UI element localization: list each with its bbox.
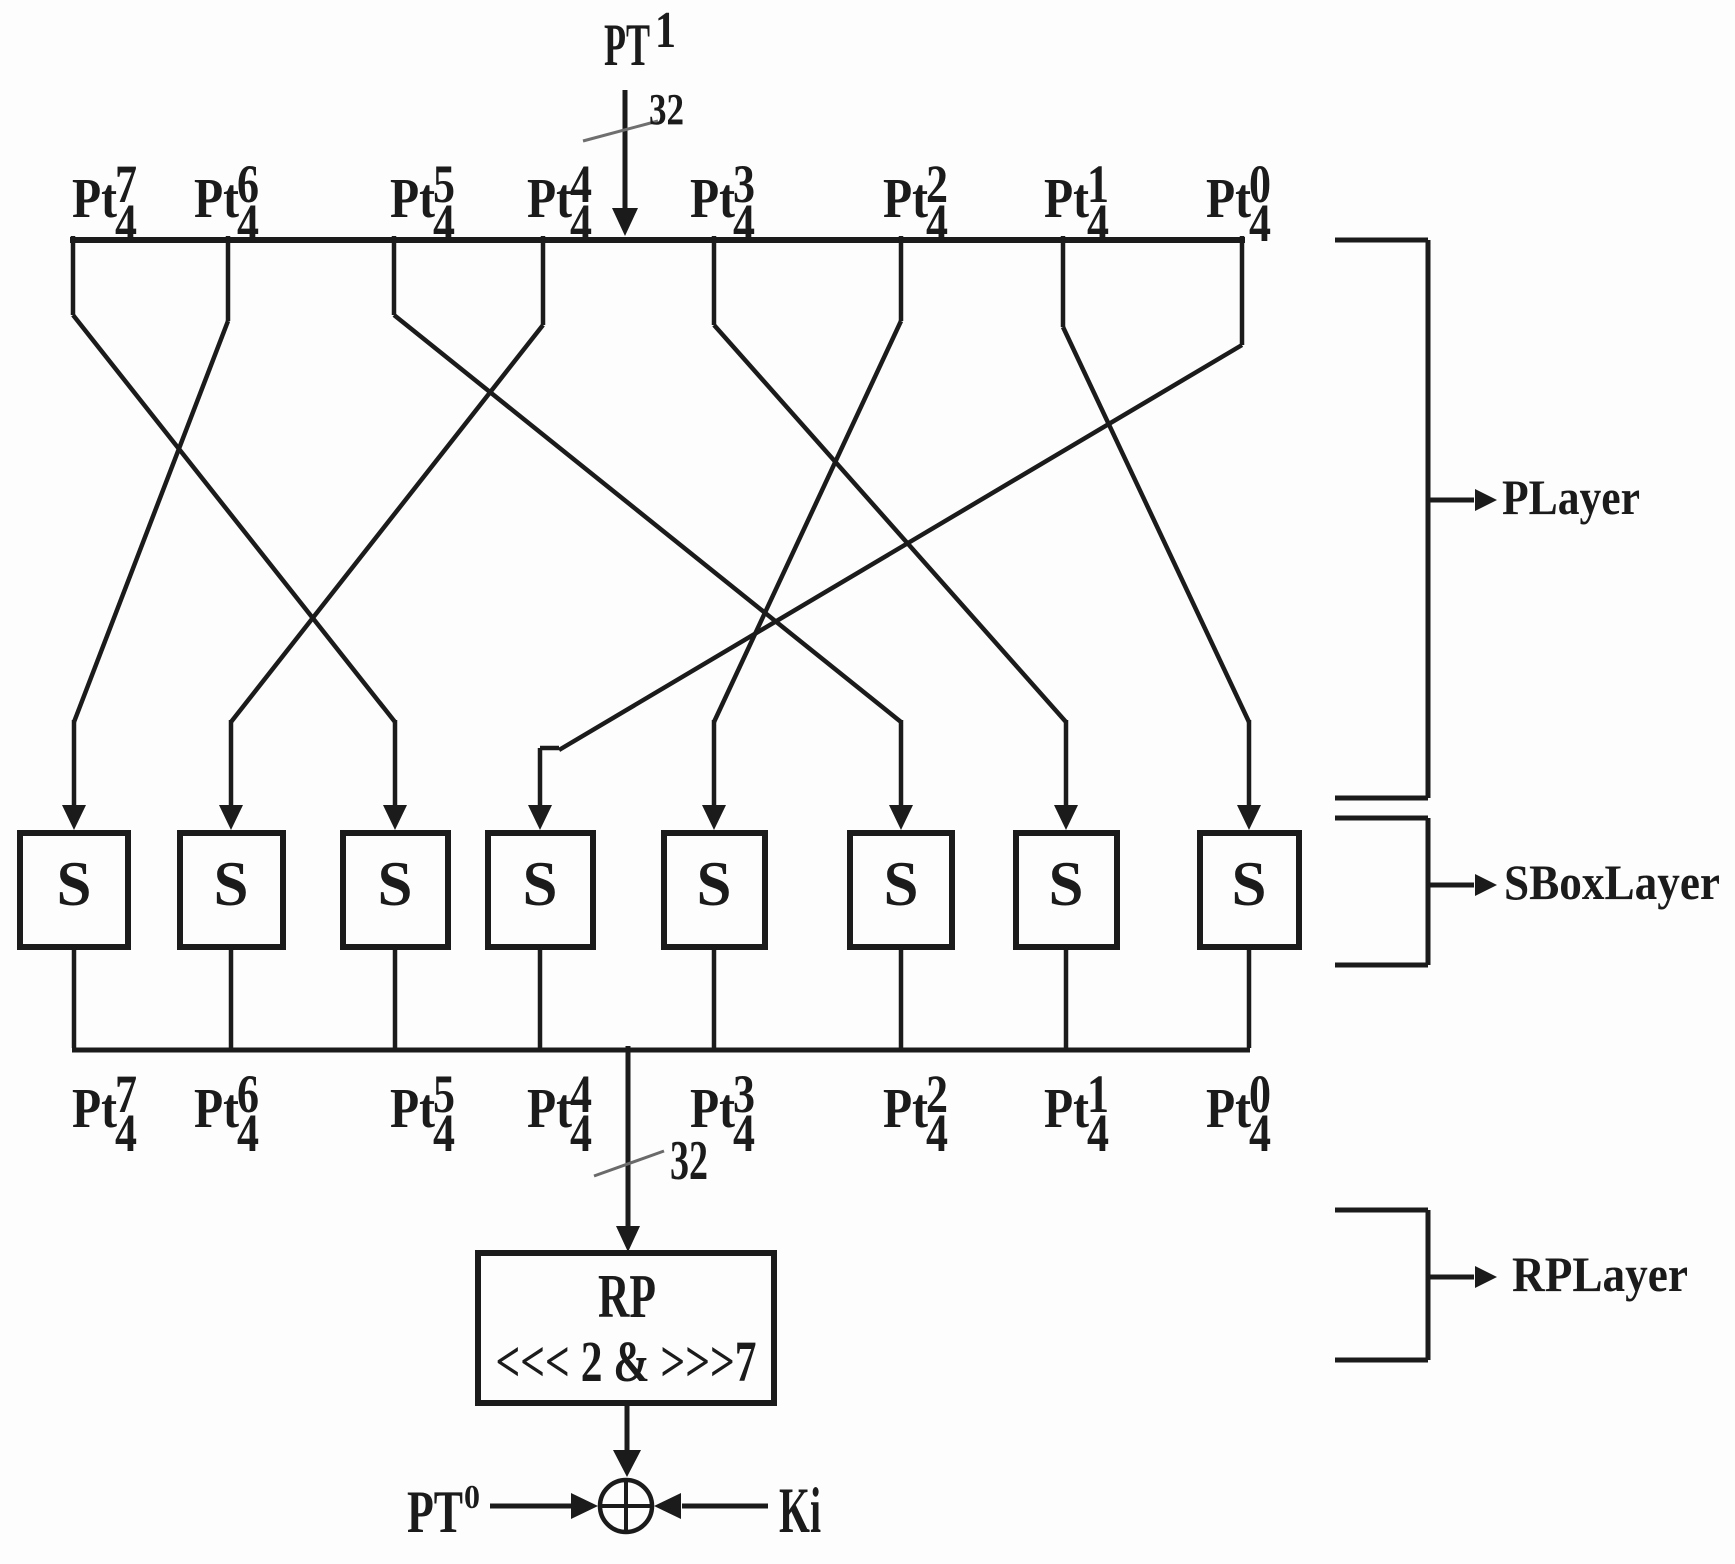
- svg-text:S: S: [697, 848, 732, 919]
- svg-text:Pt: Pt: [527, 168, 572, 230]
- wire: permutation T6 to S1: [62, 236, 228, 830]
- wire: RP output to XOR: [613, 1403, 641, 1477]
- svg-text:4: 4: [570, 1103, 592, 1163]
- label Pt4^5 (bottom): [390, 1064, 455, 1163]
- wire: S4 output: [538, 947, 543, 1048]
- svg-text:Pt: Pt: [883, 1078, 928, 1140]
- svg-text:S: S: [1049, 848, 1084, 919]
- label Pt4^0 (bottom): [1206, 1064, 1271, 1163]
- svg-text:S: S: [1232, 848, 1267, 919]
- wire: S3 output: [393, 947, 398, 1048]
- svg-text:4: 4: [926, 193, 948, 253]
- svg-text:4: 4: [115, 1103, 137, 1163]
- svg-text:Ki: Ki: [779, 1475, 821, 1547]
- wire: permutation T7 to S3: [73, 236, 407, 830]
- S-box S3: [343, 833, 448, 947]
- svg-text:4: 4: [1249, 193, 1271, 253]
- svg-text:SBoxLayer: SBoxLayer: [1504, 854, 1720, 910]
- label Pt4^2 (top): [883, 154, 948, 253]
- svg-text:4: 4: [433, 193, 455, 253]
- label Pt4^6 (top): [194, 154, 259, 253]
- svg-text:4: 4: [1249, 1103, 1271, 1163]
- label Pt4^5 (top): [390, 154, 455, 253]
- svg-text:4: 4: [115, 193, 137, 253]
- label Pt4^1 (bottom): [1044, 1064, 1109, 1163]
- svg-text:Pt: Pt: [1206, 1078, 1251, 1140]
- svg-text:S: S: [214, 848, 249, 919]
- bus width tick 32 (top): [583, 121, 658, 141]
- block RP (rotation permutation): [478, 1253, 774, 1403]
- svg-text:S: S: [57, 848, 92, 919]
- svg-text:Pt: Pt: [1206, 168, 1251, 230]
- label Pt4^2 (bottom): [883, 1064, 948, 1163]
- svg-text:4: 4: [237, 1103, 259, 1163]
- svg-text:S: S: [884, 848, 919, 919]
- wire: permutation T0 to S4 (with jog): [528, 236, 1242, 830]
- S-box S5: [664, 833, 765, 947]
- S-box S6: [850, 833, 952, 947]
- S-box S8: [1200, 833, 1299, 947]
- svg-text:4: 4: [237, 193, 259, 253]
- svg-text:Pt: Pt: [390, 168, 435, 230]
- svg-text:4: 4: [570, 193, 592, 253]
- svg-text:S: S: [523, 848, 558, 919]
- svg-text:Pt: Pt: [1044, 1078, 1089, 1140]
- svg-text:Pt: Pt: [194, 168, 239, 230]
- label Pt4^1 (top): [1044, 154, 1109, 253]
- svg-text:PT: PT: [407, 1479, 463, 1545]
- svg-text:Pt: Pt: [1044, 168, 1089, 230]
- wire: PT0 arrow into XOR: [490, 1493, 598, 1519]
- svg-text:<<< 2 & >>>7: <<< 2 & >>>7: [496, 1329, 757, 1394]
- label Pt4^3 (bottom): [690, 1064, 755, 1163]
- S-box S7: [1016, 833, 1117, 947]
- bus: P-layer input line: [70, 237, 1245, 243]
- svg-text:PT: PT: [604, 12, 650, 78]
- svg-text:4: 4: [433, 1103, 455, 1163]
- svg-text:Pt: Pt: [390, 1078, 435, 1140]
- svg-text:Pt: Pt: [72, 168, 117, 230]
- node PT1 (round input label): [604, 2, 676, 78]
- svg-text:PLayer: PLayer: [1502, 469, 1640, 525]
- S-box S1: [20, 833, 128, 947]
- label Pt4^7 (bottom): [72, 1064, 137, 1163]
- wire: permutation T5 to S6: [394, 236, 913, 830]
- wire: S8 output: [1247, 947, 1252, 1048]
- wire: permutation T3 to S7: [714, 236, 1078, 830]
- wire: permutation T2 to S5: [702, 236, 901, 830]
- svg-text:1: 1: [655, 2, 676, 59]
- bracket SBoxLayer: [1335, 818, 1497, 965]
- svg-text:4: 4: [733, 193, 755, 253]
- svg-text:Pt: Pt: [194, 1078, 239, 1140]
- svg-text:Pt: Pt: [72, 1078, 117, 1140]
- label Pt4^7 (top): [72, 154, 137, 253]
- wire: S1 output: [72, 947, 77, 1048]
- svg-text:Pt: Pt: [883, 168, 928, 230]
- svg-text:4: 4: [1087, 193, 1109, 253]
- bus width tick 32 (lower): [594, 1151, 664, 1176]
- label Pt4^4 (top): [527, 154, 592, 253]
- svg-text:0: 0: [464, 1479, 480, 1516]
- bracket PLayer: [1335, 240, 1497, 798]
- bracket RPLayer: [1335, 1210, 1497, 1360]
- wire: S6 output: [899, 947, 904, 1048]
- wire: Ki arrow into XOR: [654, 1493, 768, 1519]
- label Pt4^6 (bottom): [194, 1064, 259, 1163]
- xor gate (key mixing): [600, 1480, 652, 1532]
- bus: S-layer output line: [72, 1048, 1250, 1053]
- label Pt4^0 (top): [1206, 154, 1271, 253]
- wire: S5 output: [712, 947, 717, 1048]
- svg-text:S: S: [378, 848, 413, 919]
- S-box S4: [488, 833, 593, 947]
- S-box S2: [180, 833, 283, 947]
- svg-text:4: 4: [1087, 1103, 1109, 1163]
- wire: permutation T1 to S8: [1063, 236, 1261, 830]
- label Pt4^4 (bottom): [527, 1064, 592, 1163]
- svg-text:Pt: Pt: [527, 1078, 572, 1140]
- wire: PT1 input arrow: [612, 90, 638, 236]
- wire: state output to RP: [616, 1046, 640, 1252]
- svg-text:4: 4: [733, 1103, 755, 1163]
- label Pt4^3 (top): [690, 154, 755, 253]
- node PT0 label: [407, 1479, 480, 1545]
- wire: S2 output: [229, 947, 234, 1048]
- svg-text:RP: RP: [598, 1263, 656, 1331]
- svg-text:RPLayer: RPLayer: [1512, 1246, 1688, 1302]
- wire: permutation T4 to S2: [219, 236, 543, 830]
- svg-text:32: 32: [649, 85, 684, 134]
- svg-text:4: 4: [926, 1103, 948, 1163]
- svg-text:Pt: Pt: [690, 168, 735, 230]
- svg-text:32: 32: [670, 1130, 708, 1192]
- wire: S7 output: [1064, 947, 1069, 1048]
